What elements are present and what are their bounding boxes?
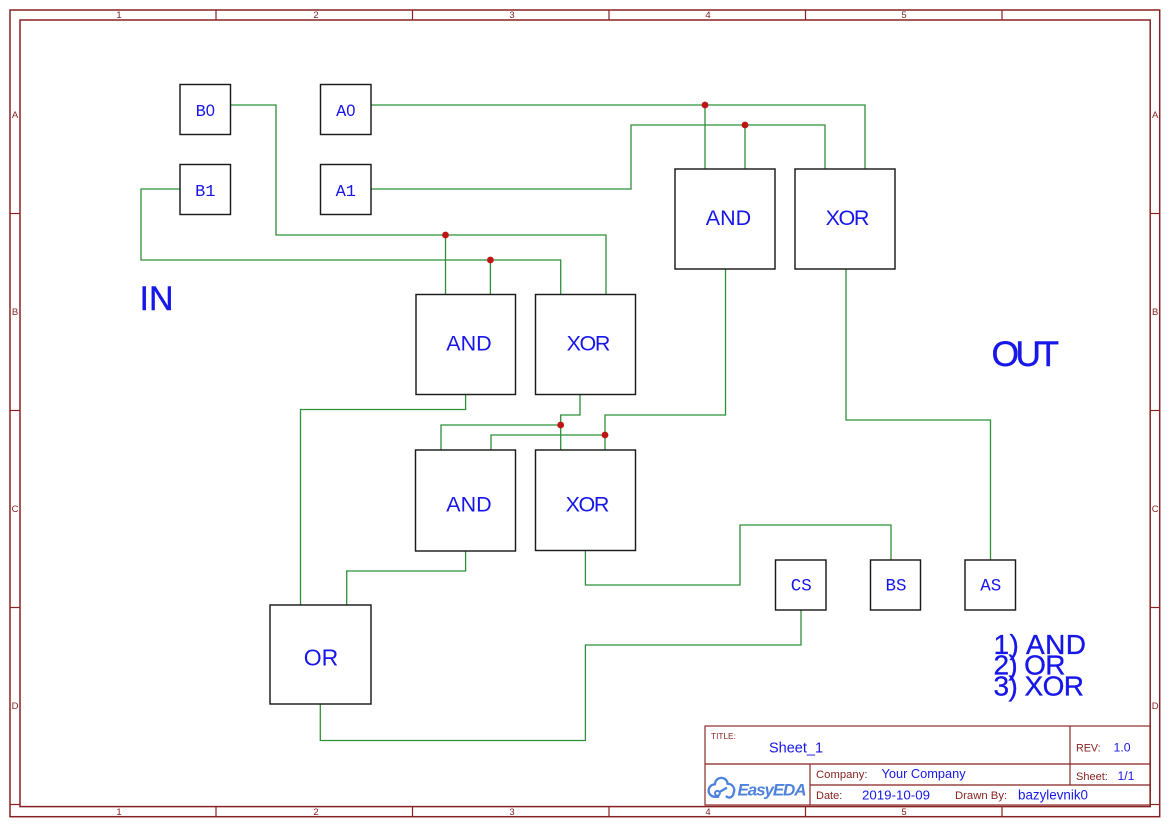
svg-text:B1: B1 [195,183,215,202]
title block outline [705,726,1150,805]
svg-text:OR: OR [304,645,339,671]
wire net OR output to CS pin [320,610,801,741]
svg-text:5: 5 [901,807,906,818]
wire branch to AND1 top-right pin [489,260,491,295]
svg-text:2: 2 [313,10,318,21]
junction on net A0 [702,102,709,109]
input port B1 [180,165,231,215]
svg-text:5: 5 [901,10,906,21]
output port BS [871,560,921,610]
junction on net AND3 out [602,432,609,439]
gate AND2 [416,450,516,551]
svg-text:D: D [1152,701,1159,712]
svg-text:A1: A1 [336,183,356,202]
frame column numbers top [116,10,906,21]
svg-text:B0: B0 [196,102,215,122]
gate AND3 [675,169,775,269]
input port A0 [321,85,372,135]
svg-text:A: A [1152,110,1159,121]
wire net A0: A0 output to XOR3 top-right pin [371,105,865,169]
frame row ticks right [1150,214,1160,805]
frame column numbers bottom [116,807,906,818]
wire branch to AND3 top-left pin [704,105,706,169]
COMPONENT BOXES [180,85,1016,705]
svg-text:Sheet_1: Sheet_1 [769,741,823,757]
svg-text:C: C [1152,504,1159,515]
svg-text:EasyEDA: EasyEDA [738,781,807,800]
svg-text:CS: CS [791,577,812,597]
TITLE BLOCK [705,726,1150,805]
svg-text:1.0: 1.0 [1114,741,1131,755]
svg-text:B: B [12,307,18,318]
gate XOR3 [795,169,895,269]
svg-text:A0: A0 [336,102,355,122]
svg-text:AND: AND [706,206,751,230]
svg-text:bazylevnik0: bazylevnik0 [1018,788,1088,803]
frame column ticks bottom [216,807,1002,817]
svg-text:AND: AND [446,331,491,355]
svg-text:TITLE:: TITLE: [711,731,736,741]
svg-text:A: A [12,110,19,121]
wire net AND3 output to XOR2 top-right pin [605,269,726,450]
frame row letters right [1152,110,1159,712]
svg-text:3: 3 [509,807,514,818]
title block divider logo cell [809,764,811,805]
gate XOR1 [536,295,636,395]
gate OR [270,605,371,704]
wire net AND2 output to OR top-right pin [347,551,466,605]
frame row ticks left [10,214,20,805]
svg-text:XOR: XOR [566,492,610,516]
svg-text:Date:: Date: [816,790,842,802]
frame row letters left [12,110,19,712]
title block divider company/date [810,784,1150,786]
wire net B1: B1 output to XOR1 top-left pin [141,189,561,295]
svg-text:XOR: XOR [826,206,870,230]
wire branch to AND1 top-left pin [445,235,447,295]
wire net XOR3 output to AS pin [846,269,991,560]
title block divider right column [1069,726,1071,785]
junction on net XOR1 out [557,422,564,429]
svg-text:XOR: XOR [567,331,611,355]
svg-text:1: 1 [116,10,121,21]
title block divider under title row [705,763,1150,765]
svg-text:AND: AND [446,492,491,516]
frame column ticks top [216,10,1002,20]
junction on net B1 [487,257,494,264]
wire branch to AND2 top-right pin [491,435,605,450]
svg-text:D: D [12,701,19,712]
EasyEDA logo cloud [709,778,735,798]
svg-text:3) XOR: 3) XOR [994,671,1085,702]
wire net A1: A1 output to XOR3 top-left pin [371,125,825,189]
wire net AND1 output to OR top-left pin [301,395,466,606]
svg-text:Company:: Company: [816,769,868,781]
svg-text:REV:: REV: [1076,743,1101,755]
svg-text:1: 1 [116,807,121,818]
svg-text:AS: AS [980,577,1001,597]
svg-text:BS: BS [885,577,906,597]
svg-text:Sheet:: Sheet: [1076,771,1108,783]
gate XOR2 [536,450,636,551]
output port CS [776,560,827,610]
svg-text:1/1: 1/1 [1118,769,1135,783]
JUNCTIONS [442,102,748,439]
wire net XOR1 output to XOR2 top-left pin [561,395,580,451]
svg-text:C: C [12,504,19,515]
wire net B0: B0 output to XOR1 top-right pin [231,105,607,295]
svg-text:2: 2 [313,807,318,818]
svg-text:4: 4 [705,10,710,21]
svg-text:Your Company: Your Company [882,766,967,781]
junction on net A1 [742,122,749,129]
svg-text:2019-10-09: 2019-10-09 [862,788,930,803]
output port AS [965,560,1016,610]
gate AND1 [416,295,516,395]
svg-text:OUT: OUT [992,334,1060,374]
svg-text:Drawn By:: Drawn By: [955,790,1007,802]
junction on net B0 [442,232,449,239]
wire branch to AND3 top-right pin [744,125,746,169]
input port A1 [321,165,372,215]
svg-text:4: 4 [705,807,710,818]
wire branch to AND2 top-left pin [441,425,561,450]
svg-text:B: B [1152,307,1158,318]
svg-text:IN: IN [140,280,174,318]
input port B0 [180,85,231,135]
svg-text:3: 3 [509,10,514,21]
wire net XOR2 output to BS pin [585,525,891,585]
